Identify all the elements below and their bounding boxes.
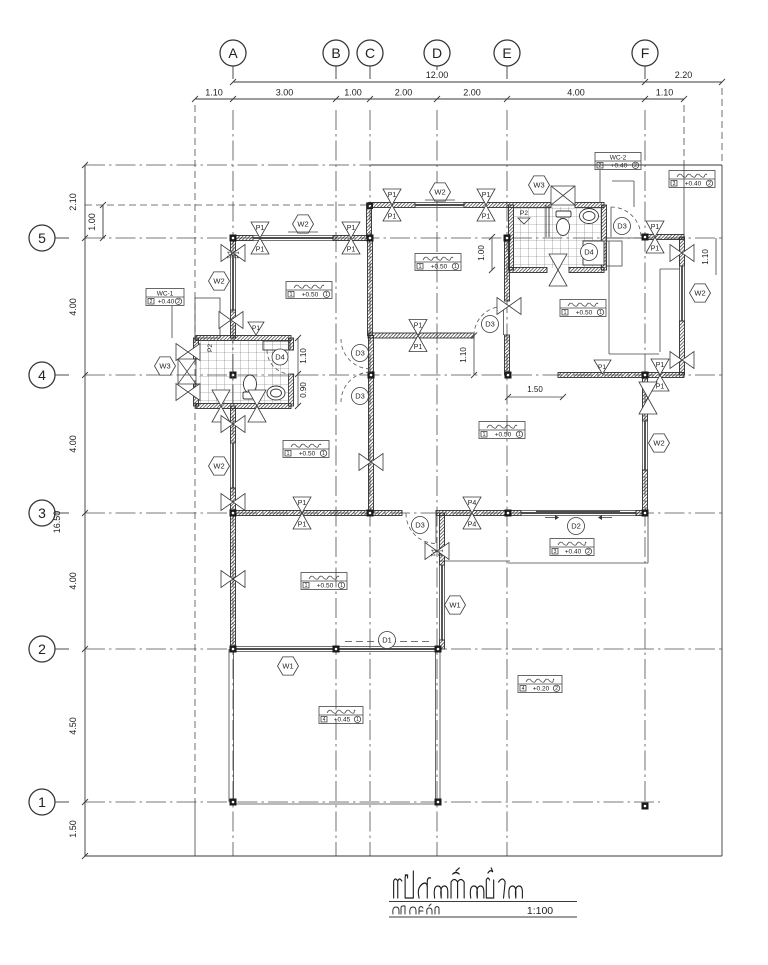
post wall 442	[425, 543, 437, 560]
svg-text:+0.50: +0.50	[299, 451, 316, 458]
svg-text:1: 1	[340, 583, 343, 589]
svg-text:4: 4	[38, 367, 46, 383]
wall bathroom1 right upper	[289, 338, 294, 350]
wall bathroom1 top	[196, 336, 291, 341]
wall F5 to 684	[645, 235, 684, 240]
svg-text:P1: P1	[298, 500, 307, 507]
post row3 right	[463, 497, 481, 513]
window W2 in row5 wall	[253, 235, 333, 237]
column F1	[642, 803, 649, 810]
svg-text:12.00: 12.00	[426, 70, 449, 80]
svg-text:2.00: 2.00	[463, 88, 481, 98]
bathroom WC-2 tiles	[513, 207, 602, 268]
svg-text:C: C	[365, 45, 375, 61]
svg-text:W3: W3	[159, 362, 170, 371]
label carport	[518, 676, 562, 693]
svg-text:D3: D3	[485, 320, 495, 329]
svg-text:1.10: 1.10	[459, 347, 468, 363]
svg-text:16.50: 16.50	[52, 511, 62, 534]
grid circle 4	[29, 362, 55, 388]
svg-text:+0.50: +0.50	[431, 264, 448, 271]
wall C bedroom divider	[368, 238, 373, 336]
window W2 bedroom2 left	[230, 255, 232, 310]
grid row 5	[85, 237, 722, 239]
svg-text:4.50: 4.50	[68, 717, 78, 735]
post wall A living	[221, 571, 233, 588]
svg-text:+0.20: +0.20	[533, 686, 550, 693]
site outline right	[721, 165, 723, 856]
svg-text:3: 3	[38, 505, 46, 521]
svg-text:+0.40: +0.40	[565, 549, 582, 556]
grid circle D	[424, 40, 450, 66]
label bedroom2	[286, 282, 332, 299]
wall 442 stub	[440, 640, 445, 649]
grid row 3	[85, 512, 722, 514]
label porch	[550, 539, 594, 556]
post bathroom2 door	[549, 254, 567, 270]
svg-text:+0.50: +0.50	[495, 432, 512, 439]
svg-text:F: F	[641, 45, 650, 61]
svg-text:1: 1	[322, 451, 325, 457]
svg-text:4.00: 4.00	[68, 435, 78, 453]
column A4	[230, 372, 237, 379]
svg-text:D2: D2	[571, 522, 581, 531]
post right of F5	[646, 221, 664, 237]
wall A above bathroom1	[231, 310, 236, 338]
post kitchen bottom	[651, 359, 669, 375]
svg-text:0.90: 0.90	[299, 382, 308, 398]
svg-text:P2: P2	[520, 210, 528, 217]
window tag W3 bathroom1	[155, 357, 176, 375]
post wall A win1 bottom	[221, 494, 233, 511]
svg-text:4: 4	[323, 717, 326, 723]
svg-text:P1: P1	[429, 549, 435, 557]
svg-text:2: 2	[555, 686, 558, 692]
svg-text:P4: P4	[468, 522, 477, 529]
terrace bottom edge	[233, 803, 438, 805]
svg-text:D: D	[432, 45, 442, 61]
column F4	[642, 372, 649, 379]
site outline top	[85, 164, 370, 166]
svg-text:D3: D3	[617, 222, 627, 231]
grid row 1	[85, 801, 660, 803]
post wall C mid	[359, 454, 371, 471]
svg-text:P1: P1	[347, 247, 356, 254]
column B2	[333, 646, 340, 653]
svg-text:+0.40: +0.40	[158, 299, 175, 306]
aux line 2.20 right	[721, 88, 723, 165]
wall bathroom2 left	[509, 205, 514, 270]
aux line right of F	[683, 105, 685, 165]
scale label (Thai)	[393, 904, 439, 914]
svg-text:+0.45: +0.45	[334, 717, 351, 724]
wall row5 A-C right part	[333, 236, 370, 241]
post P1 row5 left	[251, 222, 269, 238]
site outline bottom	[85, 855, 722, 857]
grid circle 3	[29, 500, 55, 526]
grid row 2	[85, 648, 722, 650]
wall A bedroom1 lower	[231, 488, 236, 513]
svg-text:+0.40: +0.40	[685, 181, 702, 188]
svg-text:1: 1	[38, 794, 46, 810]
wall E kitchen lower	[505, 335, 510, 375]
label multipurpose	[301, 573, 347, 590]
svg-text:+0.40: +0.40	[611, 163, 628, 170]
wall A bedroom1 upper	[231, 406, 236, 443]
window/door D2 row3	[521, 510, 636, 512]
svg-text:W3: W3	[533, 181, 544, 190]
wall row3 D-E part	[436, 511, 507, 516]
svg-text:1: 1	[290, 292, 293, 298]
svg-text:+0.50: +0.50	[302, 292, 319, 299]
svg-text:1: 1	[454, 264, 457, 270]
wall E5-F5 threshold	[604, 237, 645, 239]
svg-text:P1: P1	[252, 325, 260, 332]
post bed3 bottom wall	[409, 320, 427, 336]
column E4	[505, 372, 512, 379]
svg-text:P1: P1	[439, 549, 445, 557]
wall bathroom1 bottom	[196, 404, 291, 409]
counter WC-1	[263, 341, 290, 350]
wall bathroom1 left upper	[194, 338, 199, 359]
wall F lower	[643, 470, 648, 513]
label hall	[479, 422, 525, 439]
wall bathroom2 right	[602, 205, 607, 270]
wall 682 upper	[680, 237, 685, 266]
post wall 682 bottom	[670, 352, 682, 369]
door D3 living room	[406, 514, 436, 544]
svg-text:2: 2	[708, 181, 711, 187]
dimension line top spans	[195, 98, 684, 100]
post P1 bed3 top-left	[383, 189, 401, 205]
landing edge	[440, 560, 510, 562]
grid line E (vertical)	[506, 110, 508, 856]
svg-text:1.10: 1.10	[205, 88, 223, 98]
toilet WC-2	[557, 219, 570, 236]
svg-text:D4: D4	[275, 353, 285, 362]
column X1	[435, 799, 442, 806]
grid line C (vertical)	[369, 110, 371, 856]
svg-text:P1: P1	[656, 384, 665, 391]
svg-text:1.10: 1.10	[701, 249, 710, 265]
svg-text:P1: P1	[388, 214, 397, 221]
window tag W1 wall 442	[445, 596, 466, 614]
grid circle E	[494, 40, 520, 66]
svg-text:W1: W1	[449, 601, 460, 610]
window tag W2 kitchen right	[690, 284, 711, 302]
toilet WC-1	[244, 375, 257, 393]
svg-text:+0.50: +0.50	[317, 583, 334, 590]
svg-text:P1: P1	[256, 225, 265, 232]
post P1 row5 right	[342, 222, 360, 238]
grid line B (vertical)	[335, 110, 337, 856]
label WC-2	[595, 153, 641, 170]
svg-text:1.00: 1.00	[344, 88, 362, 98]
column C3	[367, 510, 374, 517]
svg-text:+0.50: +0.50	[576, 310, 593, 317]
post bathroom1 bottom L	[212, 390, 230, 406]
kitchen counter east	[659, 269, 661, 352]
svg-text:1.10: 1.10	[299, 348, 308, 364]
dim 1.00 inner	[102, 205, 104, 238]
door D2 glass line	[536, 511, 620, 513]
svg-text:P2: P2	[207, 344, 214, 352]
grid circle C	[357, 40, 383, 66]
window row2 right / D1 opening	[336, 646, 438, 648]
svg-text:2: 2	[599, 163, 602, 169]
grid line F (vertical)	[644, 110, 646, 810]
svg-text:P1: P1	[414, 344, 423, 351]
wall top of bedroom3 y205 part1	[368, 203, 415, 208]
svg-text:WC-2: WC-2	[610, 155, 627, 162]
dim 1.50 hall	[508, 396, 563, 398]
bathroom WC-1 tiles	[199, 340, 289, 404]
wall row3 near F	[636, 511, 645, 516]
grid line A (vertical)	[232, 110, 234, 856]
svg-text:D3: D3	[355, 349, 365, 358]
door D3 bathroom2 side	[611, 207, 641, 237]
wall top of bedroom3 part2	[464, 203, 551, 208]
column A5	[230, 235, 237, 242]
window tag W2 bed1 left	[209, 457, 230, 475]
dim 1.10 right	[715, 238, 717, 275]
svg-text:1.00: 1.00	[477, 245, 486, 261]
svg-text:1:100: 1:100	[527, 905, 553, 917]
svg-text:D3: D3	[415, 521, 425, 530]
column C4	[368, 372, 375, 379]
label bedroom1	[283, 441, 329, 458]
post row3 P1	[293, 497, 311, 513]
kitchen counter south	[608, 266, 610, 354]
wall kitchen bottom row4	[558, 373, 645, 378]
left dimension line	[84, 165, 86, 856]
label bedroom3	[415, 254, 461, 271]
svg-text:W2: W2	[694, 289, 705, 298]
window W2 bedroom1 left	[230, 443, 232, 488]
wall row3 E stub	[508, 511, 521, 516]
dim 1.10 bed3	[473, 336, 475, 376]
column F5	[642, 234, 649, 241]
wall A living room	[231, 513, 236, 649]
aux line left of A	[194, 105, 196, 800]
column A3	[230, 510, 237, 517]
window W2 bedroom3 top	[415, 202, 464, 204]
wall F kitchen upper	[643, 375, 648, 421]
grid circle 2	[29, 636, 55, 662]
wall kitchen bottom F-684	[645, 373, 684, 378]
svg-text:5: 5	[38, 230, 46, 246]
niche right of bathroom2	[606, 241, 622, 266]
svg-text:2: 2	[587, 549, 590, 555]
grid circle B	[323, 40, 349, 66]
svg-text:P1: P1	[256, 247, 265, 254]
grid circle 5	[29, 225, 55, 251]
svg-text:1.00: 1.00	[87, 213, 97, 231]
wall bedroom3 bottom	[368, 333, 474, 338]
svg-text:W2: W2	[653, 439, 664, 448]
svg-text:1.50: 1.50	[68, 820, 78, 838]
wall A upper	[231, 238, 236, 255]
svg-text:P1: P1	[388, 192, 397, 199]
porch edge right	[647, 513, 649, 563]
aux row 1.00 above row5	[85, 204, 370, 206]
svg-text:1: 1	[419, 264, 422, 270]
label laundry	[669, 171, 715, 188]
door D3 kitchen entry	[474, 307, 503, 336]
post bathroom1 bottom R	[248, 390, 266, 406]
door D1 sliding leaf	[345, 641, 430, 643]
column E5	[504, 235, 511, 242]
svg-text:1: 1	[564, 310, 567, 316]
post P1 bed3 top-right	[477, 189, 495, 205]
terrace wall right	[435, 649, 437, 802]
window W2 wall F	[642, 421, 644, 470]
shower WC-2	[583, 241, 604, 265]
svg-text:3: 3	[673, 181, 676, 187]
svg-text:W1: W1	[282, 662, 293, 671]
svg-text:1: 1	[518, 432, 521, 438]
wall 682 lower	[680, 321, 685, 375]
post wall A top	[221, 245, 233, 262]
svg-text:2: 2	[38, 641, 46, 657]
door D3 corridor lower	[341, 372, 371, 402]
svg-text:W2: W2	[213, 277, 224, 286]
label kitchen	[560, 300, 606, 317]
svg-text:2.10: 2.10	[68, 193, 78, 211]
svg-text:E: E	[502, 45, 511, 61]
svg-text:P4: P4	[468, 500, 477, 507]
door D1 label	[379, 632, 396, 649]
title underline	[389, 901, 577, 903]
svg-text:1.50: 1.50	[527, 385, 543, 394]
svg-text:W2: W2	[213, 462, 224, 471]
window W2 wall 682	[679, 266, 681, 321]
svg-text:3.00: 3.00	[276, 88, 294, 98]
wall bathroom2 top right part	[575, 203, 604, 208]
svg-text:WC-1: WC-1	[157, 291, 174, 298]
svg-text:P1: P1	[651, 224, 660, 231]
shower partition WC-2	[545, 205, 547, 237]
dimension line 12.00/2.20	[233, 81, 722, 83]
wall C corridor	[369, 336, 374, 514]
svg-text:P1: P1	[482, 214, 491, 221]
wall bathroom2 bottom right	[569, 268, 604, 273]
svg-text:D4: D4	[584, 248, 594, 257]
window W1 wall 442	[439, 565, 441, 640]
svg-text:B: B	[331, 45, 340, 61]
porch edge bottom	[508, 562, 648, 564]
svg-text:4.00: 4.00	[567, 88, 585, 98]
svg-text:W2: W2	[297, 220, 308, 229]
column C5	[367, 235, 374, 242]
svg-text:4.00: 4.00	[68, 298, 78, 316]
dim 1.10 corridor	[297, 338, 299, 406]
svg-text:P1: P1	[598, 364, 606, 371]
post W3-1 bottom	[176, 384, 188, 401]
title (floor plan, Thai)	[394, 868, 523, 898]
door D4 bathroom1	[267, 350, 291, 374]
column A2	[230, 646, 237, 653]
grid circle F	[632, 40, 658, 66]
label WC-1	[146, 289, 184, 306]
grid line D (vertical)	[436, 110, 438, 856]
svg-text:1: 1	[356, 717, 359, 723]
window tag W2 wall F	[649, 434, 670, 452]
window tag W1 terrace	[278, 657, 299, 675]
wall 442 upper	[440, 513, 445, 565]
grid row 4	[85, 374, 722, 376]
svg-text:1: 1	[599, 310, 602, 316]
post nook	[219, 312, 231, 329]
post W3-1 top	[176, 344, 188, 361]
grid circle A	[220, 40, 246, 66]
svg-text:2: 2	[150, 299, 153, 305]
svg-text:2: 2	[634, 163, 637, 169]
post wall E	[497, 298, 509, 315]
svg-text:1.10: 1.10	[656, 88, 674, 98]
svg-text:4: 4	[522, 686, 525, 692]
svg-text:P1: P1	[225, 251, 231, 259]
label terrace	[319, 707, 363, 724]
svg-text:A: A	[228, 45, 238, 61]
post wall 682 top	[670, 245, 682, 262]
post P1 kitchen south	[594, 360, 611, 374]
window tag W2 bed2 left	[209, 272, 230, 290]
door D3 corridor upper	[341, 339, 371, 369]
svg-text:1: 1	[305, 583, 308, 589]
wall row3 A-D part	[233, 511, 402, 516]
svg-text:2.00: 2.00	[395, 88, 413, 98]
window tag W2 row5	[293, 215, 314, 233]
column A1	[230, 799, 237, 806]
svg-text:P1: P1	[298, 522, 307, 529]
svg-text:1: 1	[483, 432, 486, 438]
wall E kitchen upper	[505, 238, 510, 301]
svg-text:1: 1	[287, 451, 290, 457]
column E3	[505, 510, 512, 517]
wall row5 A-C left part	[233, 236, 253, 241]
svg-text:P1: P1	[482, 192, 491, 199]
svg-text:D1: D1	[382, 636, 392, 645]
svg-text:4.00: 4.00	[68, 572, 78, 590]
grid circle 1	[29, 789, 55, 815]
svg-text:1: 1	[325, 292, 328, 298]
svg-text:P1: P1	[656, 362, 665, 369]
wall bathroom1 left lower	[194, 384, 199, 406]
svg-text:2: 2	[177, 299, 180, 305]
window tag W3 bathroom2	[529, 176, 550, 194]
svg-text:3: 3	[554, 549, 557, 555]
wall bathroom1 right lower	[289, 374, 294, 406]
sink WC-1	[267, 386, 285, 400]
door D2 label	[568, 518, 585, 535]
terrace wall left	[228, 649, 230, 802]
svg-text:P1: P1	[414, 323, 423, 330]
wall connector at C	[367, 203, 372, 238]
window W1 row2 left	[233, 646, 336, 648]
wall bathroom2 bottom left	[509, 268, 547, 273]
post wall F win	[639, 382, 657, 398]
post wall A win1 top	[221, 416, 233, 433]
door D4 shower drain	[581, 244, 598, 261]
svg-text:W2: W2	[434, 188, 445, 197]
nook closet	[195, 298, 220, 338]
sink WC-2	[580, 209, 599, 224]
window tag W2 bed3	[430, 183, 451, 201]
svg-text:D3: D3	[355, 392, 365, 401]
column X2	[435, 646, 442, 653]
svg-text:P1: P1	[651, 246, 660, 253]
